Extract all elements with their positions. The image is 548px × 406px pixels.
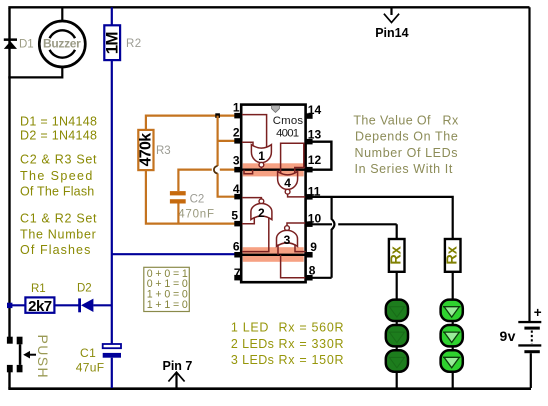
LED D5 dark green	[386, 350, 408, 371]
svg-text:470nF: 470nF	[178, 209, 215, 221]
wire pin11 to Rx2	[312, 197, 453, 239]
pin 11 stub	[305, 194, 312, 200]
svg-text:+: +	[534, 305, 542, 320]
pin 9 stub	[305, 252, 312, 258]
wire to IC pin 6 (blue)	[112, 253, 235, 255]
IC pin1 highlight band 3-12	[243, 163, 304, 176]
note value of Rx	[353, 113, 459, 176]
svg-text:D1 = 1N4148: D1 = 1N4148	[20, 114, 97, 128]
resistor R1 value 2k7	[25, 297, 54, 314]
gate U1b input from pin 5	[242, 218, 254, 224]
resistor R2 value 1M	[103, 25, 122, 60]
diode D1	[4, 38, 17, 49]
pin 8 stub	[305, 275, 312, 281]
LED D6 bright green	[441, 300, 463, 321]
svg-text:2k7: 2k7	[28, 298, 52, 315]
wire border to R1 (blue)	[8, 304, 25, 306]
svg-text:1: 1	[258, 149, 265, 163]
svg-text:Of Flashes: Of Flashes	[20, 243, 91, 257]
capacitor C2	[170, 191, 186, 203]
svg-text:Rx: Rx	[445, 246, 461, 265]
push button S1	[7, 337, 36, 373]
wire pin10 to Rx1	[312, 224, 397, 239]
wire Rx1 to LED chain to 0V	[396, 272, 398, 388]
svg-text:3 LEDs: 3 LEDs	[231, 353, 274, 367]
wire R3 top to pin 1 (orange)	[146, 116, 235, 130]
pin 2 stub	[234, 138, 241, 144]
svg-text:12: 12	[308, 153, 322, 167]
wire junction to pin 2 (orange)	[218, 140, 235, 142]
svg-text:1 LED: 1 LED	[231, 321, 269, 335]
battery B1 9v	[518, 321, 541, 353]
wire R2 top (blue)	[111, 7, 113, 25]
wire 6-9 line to pin 8 (maroon)	[281, 255, 306, 278]
wire left branch	[8, 8, 10, 389]
pin 13 stub	[305, 139, 312, 145]
svg-text:C2 & R3 Set: C2 & R3 Set	[20, 152, 97, 166]
wire top +9V rail	[8, 6, 529, 8]
svg-text:The Number: The Number	[20, 227, 96, 241]
svg-text:D2: D2	[77, 282, 92, 294]
wire buzzer bottom to left branch	[8, 66, 62, 78]
svg-text:3: 3	[233, 154, 240, 168]
gate U1a input from pin 1	[242, 115, 267, 148]
pin 12 stub	[305, 167, 312, 173]
svg-text:3: 3	[284, 233, 291, 247]
svg-text:5: 5	[231, 208, 238, 222]
pin 3 stub	[234, 167, 241, 173]
note diode values	[20, 114, 97, 142]
svg-text:PUSH: PUSH	[35, 335, 51, 380]
pin 6 stub	[234, 252, 241, 258]
pin 10 stub	[305, 221, 312, 227]
wire battery minus to 0V rail	[530, 353, 532, 388]
arrow Pin14 pointer	[384, 8, 399, 23]
gate U1a NOR 1	[251, 145, 271, 170]
buzzer BZ1	[39, 21, 85, 67]
capacitor C1	[103, 344, 121, 358]
wire buzzer top	[61, 7, 63, 21]
pin 14 stub	[305, 113, 312, 119]
LED D3 dark green	[386, 300, 408, 321]
wire pin8 stub link	[312, 277, 332, 279]
svg-text:D2 = 1N4148: D2 = 1N4148	[20, 128, 97, 142]
svg-text:Rx: Rx	[389, 246, 405, 265]
wire junction down to pin 4 (orange, with hop gap)	[218, 116, 235, 197]
svg-text:The Speed: The Speed	[20, 169, 94, 183]
pin 5 stub	[234, 221, 241, 227]
IC notch	[272, 106, 280, 113]
svg-text:6: 6	[233, 240, 240, 254]
wire pin13 to pin12 loop	[312, 142, 331, 170]
svg-text:Number Of LEDs: Number Of LEDs	[355, 146, 459, 160]
resistor Rx1	[389, 239, 405, 272]
svg-text:9: 9	[310, 240, 317, 254]
wire gate1 output detour under pin3 line	[244, 170, 253, 174]
svg-text:4: 4	[233, 182, 240, 196]
svg-text:Rx = 560R: Rx = 560R	[279, 321, 345, 335]
wire R3 bottom to pin 5 (orange)	[146, 170, 235, 224]
note LED Rx values	[231, 321, 344, 367]
wire bottom 0V rail	[8, 387, 531, 390]
svg-text:1 + 1 = 0: 1 + 1 = 0	[147, 299, 188, 311]
svg-text:2: 2	[258, 206, 265, 220]
svg-text:1: 1	[233, 100, 240, 114]
svg-text:47uF: 47uF	[76, 361, 105, 375]
svg-text:13: 13	[308, 128, 322, 142]
svg-text:Buzzer: Buzzer	[43, 37, 81, 51]
svg-text:Rx = 330R: Rx = 330R	[279, 337, 345, 351]
gate U1b input from pin 6	[242, 218, 269, 252]
svg-text:The Value Of Rx: The Value Of Rx	[353, 113, 459, 127]
gate U1b output to pin 4	[242, 198, 261, 199]
wire crossover hop at pin3 line	[214, 166, 218, 173]
op-amp U1 IC body Cmos 4001	[241, 105, 305, 283]
node junction left border / R1 (blue dot)	[7, 303, 12, 308]
pin 1 stub	[234, 113, 241, 119]
svg-text:R3: R3	[156, 145, 171, 157]
pin numbers left	[231, 100, 241, 280]
svg-text:7: 7	[234, 266, 241, 280]
wire right border to battery +	[528, 7, 530, 321]
svg-text:Rx = 150R: Rx = 150R	[279, 353, 345, 367]
svg-text:C2: C2	[190, 194, 205, 206]
svg-text:C1: C1	[80, 346, 96, 360]
truth table box	[144, 267, 190, 311]
gate U1c output to pin 10	[287, 223, 306, 226]
wire D2 to blue vertical	[93, 304, 111, 306]
gate U1c input left to 6-9 line	[277, 244, 279, 255]
svg-text:D1: D1	[19, 39, 34, 51]
IC highlight band 6-9	[243, 247, 304, 262]
svg-text:Pin14: Pin14	[375, 26, 408, 40]
wire R1 to D2 (blue)	[54, 304, 78, 306]
resistor Rx2	[445, 239, 461, 272]
gate U1b NOR 2	[251, 199, 272, 220]
svg-text:Of The Flash: Of The Flash	[20, 184, 94, 198]
LED D4 dark green	[386, 325, 408, 346]
gate U1d input from pin 12	[295, 168, 306, 173]
note C1 R2 flashes	[20, 211, 97, 256]
truth table line 1	[147, 268, 188, 311]
gate U1d input from pin 13	[281, 143, 304, 173]
svg-text:In Series With It: In Series With It	[355, 162, 453, 176]
svg-text:1M: 1M	[103, 32, 122, 55]
note C2 R3 speed	[20, 152, 97, 198]
wire R2 bottom down to C1 (blue)	[111, 60, 113, 344]
svg-text:8: 8	[309, 264, 316, 278]
wire Rx2 to LED chain to 0V	[452, 272, 454, 388]
node junction orange (dot)	[215, 113, 220, 118]
gate U1c NOR 3	[277, 226, 298, 247]
arrow Pin 7 pointer	[168, 372, 184, 388]
gate U1d NOR 4	[278, 171, 298, 194]
wire pin6 to pin9 internal (black)	[235, 254, 313, 256]
wire C2 bottom (orange)	[177, 204, 179, 224]
svg-text:R1: R1	[31, 283, 46, 295]
LED D7 bright green	[441, 325, 463, 346]
pin 7 stub	[234, 275, 241, 281]
gate U1d output to pin 11	[288, 194, 306, 197]
svg-text:4: 4	[284, 176, 291, 190]
LED D8 bright green	[441, 350, 463, 371]
diode D2	[78, 298, 93, 312]
svg-text:4001: 4001	[276, 128, 299, 140]
svg-text:2 LEDs: 2 LEDs	[231, 337, 274, 351]
gate U1c input right to 6-9 line	[295, 244, 306, 251]
wire pin11 to pin8 vertical with hop	[332, 197, 335, 278]
svg-text:R2: R2	[126, 38, 142, 50]
svg-text:470k: 470k	[137, 133, 154, 167]
pin numbers right	[308, 103, 322, 277]
resistor R3 value 470k	[137, 130, 154, 170]
wire C2 top to pin 3 (orange)	[178, 170, 235, 191]
svg-text:9v: 9v	[500, 328, 516, 344]
pin 4 stub	[234, 194, 241, 200]
gate U1a input from pin 2	[242, 142, 253, 147]
svg-text:Pin 7: Pin 7	[163, 359, 193, 373]
svg-text:Depends On The: Depends On The	[355, 130, 458, 144]
wire pin3 to pin12 internal (black)	[235, 168, 313, 170]
svg-text:C1 & R2 Set: C1 & R2 Set	[20, 211, 97, 225]
svg-text:14: 14	[308, 103, 322, 117]
svg-text:Cmos: Cmos	[273, 115, 304, 127]
svg-text:2: 2	[233, 126, 240, 140]
wire C1 bottom to 0V rail (blue)	[111, 358, 113, 388]
